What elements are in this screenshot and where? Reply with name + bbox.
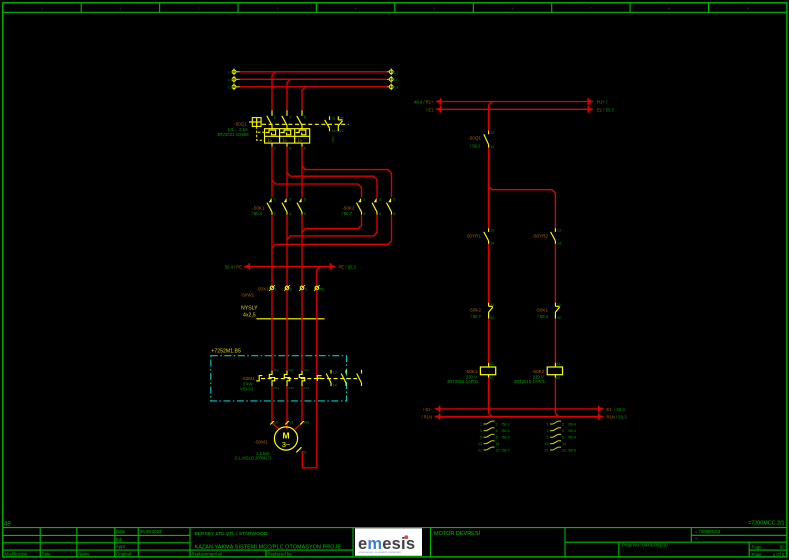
svg-text:6: 6 — [393, 212, 395, 216]
wire drop from L3 to breaker — [302, 87, 306, 111]
wire branch to contactor K2 — [272, 181, 362, 198]
overload relay trip hook left — [256, 376, 262, 381]
node R1N wire bottom — [440, 416, 599, 418]
svg-text:13: 13 — [490, 229, 494, 233]
svg-text:Date: Date — [42, 552, 52, 557]
svg-text:/50.4: /50.4 — [568, 429, 576, 433]
svg-text:3RT2015-1AP01: 3RT2015-1AP01 — [447, 379, 479, 384]
svg-text:-50K1: -50K1 — [252, 205, 265, 210]
wire terminal to overload relay — [271, 290, 273, 371]
cable line — [257, 318, 325, 320]
svg-text:V1: V1 — [289, 420, 293, 424]
relay contact -50YR1 — [484, 228, 494, 245]
svg-text:-50M1: -50M1 — [242, 376, 255, 381]
svg-text:/ E1-: / E1- — [423, 407, 432, 412]
motor pin V1 — [285, 420, 293, 424]
svg-text:/ E1: / E1 — [426, 107, 434, 112]
svg-text:5: 5 — [393, 197, 395, 201]
svg-text:3RV2021-1DX08: 3RV2021-1DX08 — [217, 132, 249, 137]
wire terminal to overload relay — [286, 290, 288, 371]
svg-text:4: 4 — [379, 212, 381, 216]
svg-text:26.08.2024: 26.08.2024 — [140, 529, 162, 534]
svg-text:Replacement of: Replacement of — [192, 552, 223, 557]
contactor K1 main contact 1-2 — [267, 197, 276, 216]
breaker -50Q1 drive dashed link — [257, 124, 349, 140]
drawing title MOTOR DEVRESI — [434, 530, 481, 537]
relay contact -50YR2 — [551, 228, 561, 245]
svg-text:1: 1 — [363, 197, 365, 201]
svg-text:5: 5 — [480, 436, 482, 440]
svg-text:2: 2 — [290, 287, 292, 291]
svg-text:-50K2: -50K2 — [469, 307, 482, 312]
svg-text:7: 7 — [590, 7, 592, 11]
svg-text:L3: L3 — [394, 84, 399, 89]
terminal -50X1:3 — [299, 285, 307, 291]
breaker thermal element 1 — [266, 130, 276, 135]
breaker -50Q1 pole 2 contact, pin 3 — [282, 110, 291, 128]
overload relay aux contact 3 — [357, 370, 362, 386]
svg-text:50.4 / PE: 50.4 / PE — [225, 265, 242, 270]
svg-text:L1: L1 — [394, 69, 399, 74]
svg-text:3: 3 — [547, 429, 549, 433]
breaker thermal element 3 — [296, 130, 306, 135]
wire interlock to coil K1 — [488, 319, 490, 363]
svg-text:M: M — [282, 430, 289, 440]
svg-text:13: 13 — [333, 370, 337, 374]
mounting location box +7252M1.B5 — [211, 349, 347, 401]
svg-text:1: 1 — [274, 115, 276, 119]
title block grid — [3, 528, 787, 557]
svg-text:5: 5 — [547, 436, 549, 440]
contactor coil -50K2 — [547, 362, 562, 380]
motor PE pin — [296, 447, 307, 454]
svg-text:-50YR2: -50YR2 — [532, 234, 548, 239]
svg-text:=7200MCC.2/1: =7200MCC.2/1 — [748, 521, 784, 527]
terminal strip X1 tag label — [256, 287, 269, 292]
project name KAZAN — [195, 543, 342, 550]
overload relay M1 tag label — [242, 376, 255, 381]
node L3 left termination — [228, 84, 239, 91]
motor value label 1,1 kW — [256, 451, 269, 456]
svg-text:-50K1: -50K1 — [465, 369, 478, 374]
svg-text:4/T2: 4/T2 — [288, 386, 294, 390]
svg-text:1/L1: 1/L1 — [273, 368, 279, 372]
contactor K2 main contact 5-6 — [387, 197, 396, 216]
contactor coil -50K1 — [480, 362, 495, 380]
circuit breaker Q1 tag label — [234, 122, 247, 127]
overload relay -50M1 thermal pole 5/L3 — [299, 368, 309, 390]
svg-text:22: 22 — [496, 448, 500, 452]
svg-text:5/L3: 5/L3 — [303, 368, 309, 372]
coil -50K1 value label 230 V — [466, 374, 477, 379]
K2 interlock tag label — [469, 307, 482, 319]
coil -50K2 value label 230 V — [533, 374, 544, 379]
svg-text:3: 3 — [276, 7, 278, 11]
svg-text:Appr: Appr — [116, 544, 126, 549]
contactor K2 tag label — [342, 205, 355, 216]
svg-text:-50W1: -50W1 — [241, 293, 255, 298]
wire YR1 to K2 interlock — [488, 244, 490, 303]
project number — [622, 542, 668, 547]
wire contactor K1 to terminal strip — [301, 215, 303, 287]
svg-text:L3: L3 — [228, 84, 233, 89]
motor M1 tag label — [254, 439, 267, 444]
breaker -50Q1 pole 3 bottom pin 6 — [302, 143, 306, 150]
R1+ left interruption arrow — [414, 98, 441, 105]
overload relay -50M1 thermal pole 1/L1 — [269, 368, 279, 390]
wire breaker to contactor K1 — [271, 147, 273, 198]
svg-text:PE: PE — [320, 287, 325, 291]
svg-text:3RT2015-1AP01: 3RT2015-1AP01 — [514, 379, 546, 384]
breaker -50Q1 trip unit box — [265, 129, 310, 143]
svg-text:/ 50.4: / 50.4 — [252, 211, 263, 216]
contactor K1 main contact 5-6 — [297, 197, 306, 216]
wire PE drop — [317, 267, 321, 287]
svg-text:22: 22 — [490, 316, 494, 320]
E1 left interruption arrow — [426, 106, 441, 113]
svg-text:14: 14 — [333, 384, 337, 388]
svg-text:/ R1N: / R1N — [421, 415, 432, 420]
svg-text:2: 2 — [363, 212, 365, 216]
wire PE terminal down — [316, 290, 318, 468]
svg-text:14: 14 — [557, 242, 561, 246]
svg-text:otomasyon ve elektrik sistemle: otomasyon ve elektrik sistemleri — [359, 550, 402, 554]
svg-text:1: 1 — [120, 7, 122, 11]
PE left interruption arrow — [225, 263, 249, 270]
YR2 tag label — [532, 234, 548, 239]
svg-text:13: 13 — [331, 117, 335, 121]
svg-text:21: 21 — [557, 303, 561, 307]
svg-text:2: 2 — [274, 212, 276, 216]
svg-text:BERSEY LTD.ŞTİ. / STARWOOD: BERSEY LTD.ŞTİ. / STARWOOD — [195, 530, 268, 537]
svg-text:-50Q1: -50Q1 — [468, 136, 481, 141]
contactor K2 main contact 3-4 — [372, 197, 381, 216]
svg-text:14: 14 — [496, 442, 500, 446]
wire YR2 to K1 interlock — [554, 244, 556, 303]
breaker magnetic element 1 — [268, 138, 272, 144]
svg-text:L2: L2 — [394, 77, 399, 82]
page number cells — [752, 544, 786, 557]
svg-text:21: 21 — [545, 448, 549, 452]
svg-text:3: 3 — [289, 197, 291, 201]
svg-text:5: 5 — [304, 197, 306, 201]
wire contactor K1 to terminal strip — [271, 215, 273, 287]
svg-text:5: 5 — [433, 7, 435, 11]
svg-text:Ed.: Ed. — [116, 537, 122, 542]
svg-text:/ 50.7: / 50.7 — [342, 211, 353, 216]
breaker -50Q1 aux NC contact 21-22 — [338, 116, 344, 133]
coil -50K1 type label — [447, 379, 479, 384]
wire terminal to overload relay — [301, 290, 303, 371]
svg-text:6: 6 — [512, 7, 514, 11]
breaker aux cross-reference 50.2 — [331, 137, 335, 144]
svg-text:A2: A2 — [489, 376, 493, 380]
svg-text:2: 2 — [562, 422, 564, 426]
E1- right interruption arrow — [599, 406, 626, 413]
svg-text:-50K2: -50K2 — [532, 369, 545, 374]
svg-text:MOTOR DEVRESİ: MOTOR DEVRESİ — [434, 530, 481, 537]
svg-text:Proje No.: 04.01-001/10: Proje No.: 04.01-001/10 — [622, 542, 668, 547]
svg-text:9: 9 — [747, 7, 749, 11]
svg-text:-50K2: -50K2 — [342, 205, 355, 210]
node L2 left termination — [228, 76, 239, 83]
cable type label NYSLY 4x2,5 — [241, 305, 258, 318]
drawing reference =7200MCC.2/1 — [748, 521, 784, 527]
svg-text:4: 4 — [562, 429, 564, 433]
wire breaker to contactor K1 — [301, 147, 303, 198]
svg-text:2: 2 — [198, 7, 200, 11]
emesis logo — [355, 528, 422, 556]
svg-text:1 Of 6: 1 Of 6 — [773, 552, 785, 557]
svg-text:6: 6 — [562, 436, 564, 440]
motor value label type — [235, 456, 272, 461]
svg-text:-50X1: -50X1 — [256, 287, 269, 292]
svg-text:V/D-63: V/D-63 — [240, 387, 254, 392]
svg-text:E1 / 50.3: E1 / 50.3 — [597, 107, 614, 112]
svg-text:L2: L2 — [228, 77, 233, 82]
svg-text:48.4 / R1+: 48.4 / R1+ — [414, 100, 434, 105]
svg-text:14: 14 — [562, 442, 566, 446]
value label 3RV2021-1DX08 — [217, 132, 249, 137]
wire branch to contactor K2 — [302, 166, 392, 197]
svg-text:KAZAN YAKMA SİSTEMİ MCC/PLC OT: KAZAN YAKMA SİSTEMİ MCC/PLC OTOMASYON PR… — [195, 543, 342, 550]
terminal -50X1:PE — [314, 285, 325, 291]
svg-text:6: 6 — [304, 146, 306, 150]
svg-text:6: 6 — [496, 436, 498, 440]
sheet number 49 — [4, 521, 11, 527]
svg-text:G.L.MSLB 200ML/1: G.L.MSLB 200ML/1 — [235, 456, 272, 461]
svg-text:4: 4 — [289, 212, 291, 216]
terminal -50X1:1 — [269, 285, 277, 291]
value label V/D-63 — [240, 387, 254, 392]
svg-text:14: 14 — [490, 242, 494, 246]
wire overload to motor — [286, 386, 288, 429]
E1 right interruption arrow — [588, 106, 614, 113]
coil -50K1 tag label — [465, 369, 478, 374]
svg-text:Name: Name — [78, 552, 90, 557]
svg-text:2: 2 — [496, 422, 498, 426]
svg-text:2/T1: 2/T1 — [273, 386, 279, 390]
value label 1,6...2,5A — [228, 127, 248, 132]
switch -50Q1 aux contact 13-14 — [484, 131, 494, 150]
contactor K2 main contact 1-2 — [357, 197, 366, 216]
wire R1+ down to Q1 aux — [489, 102, 493, 131]
wire drop from L1 to breaker — [272, 72, 276, 111]
breaker -50Q1 pole 3 contact, pin 5 — [297, 110, 306, 128]
R1N right interruption arrow — [599, 413, 628, 420]
svg-text:4: 4 — [355, 7, 357, 11]
terminal -50X1:2 — [284, 285, 292, 291]
svg-text:/50.7: /50.7 — [502, 448, 510, 452]
svg-text:/50.2: /50.2 — [331, 137, 335, 144]
svg-text:22: 22 — [340, 129, 344, 133]
svg-text:/50.3: /50.3 — [502, 429, 510, 433]
wire contactor K2 crossover join — [287, 215, 377, 240]
wire branch to right leg — [489, 186, 556, 228]
wire contactor K2 crossover join — [302, 215, 362, 233]
svg-text:1: 1 — [547, 422, 549, 426]
plant reference cell — [695, 529, 721, 534]
L1 bus wire — [239, 71, 388, 73]
svg-text:U1: U1 — [274, 420, 279, 424]
L2 bus wire — [239, 78, 388, 80]
svg-text:14: 14 — [331, 129, 335, 133]
contactor K1 tag label — [252, 205, 265, 216]
svg-text:L1: L1 — [228, 69, 233, 74]
overload relay -50M1 thermal pole 3/L2 — [284, 368, 294, 390]
svg-text:22: 22 — [557, 316, 561, 320]
svg-text:8: 8 — [668, 7, 670, 11]
svg-text:13: 13 — [557, 229, 561, 233]
svg-text:21: 21 — [490, 303, 494, 307]
svg-text:4: 4 — [289, 146, 291, 150]
svg-text:Page: Page — [752, 544, 763, 549]
svg-text:E1- / 50.3: E1- / 50.3 — [607, 407, 626, 412]
svg-text:-50K1: -50K1 — [536, 307, 549, 312]
svg-text:W1: W1 — [304, 420, 309, 424]
svg-text:Page: Page — [752, 552, 763, 557]
svg-text:Date: Date — [116, 529, 126, 534]
wire coil K2 to R1N — [555, 378, 559, 417]
breaker thermal element 2 — [281, 130, 291, 135]
Q1 aux tag label — [468, 136, 481, 149]
breaker -50Q1 pole 1 contact, pin 1 — [267, 110, 276, 128]
svg-text:21: 21 — [478, 448, 482, 452]
svg-text:3: 3 — [480, 429, 482, 433]
wire PE to motor — [302, 452, 317, 468]
svg-text:/50.6: /50.6 — [568, 448, 576, 452]
svg-text:14: 14 — [490, 145, 494, 149]
E1- left interruption arrow — [423, 406, 440, 413]
svg-text:21: 21 — [340, 117, 344, 121]
svg-text:= 7200MCC3: = 7200MCC3 — [695, 529, 721, 534]
overload relay trip hook right — [317, 376, 321, 381]
title block labels — [5, 529, 293, 556]
svg-text:50: 50 — [780, 544, 785, 549]
cable W1 tag label — [241, 293, 255, 298]
svg-text:NYSLY: NYSLY — [241, 305, 258, 311]
svg-text:A1: A1 — [490, 362, 494, 366]
breaker magnetic element 3 — [298, 138, 302, 144]
svg-text:/ 50.2: / 50.2 — [470, 143, 481, 148]
node L2 right termination — [387, 76, 399, 83]
breaker -50Q1 pole 1 bottom pin 2 — [272, 143, 276, 150]
company name BERSEY — [195, 530, 268, 537]
svg-text:2: 2 — [274, 146, 276, 150]
svg-text:1: 1 — [480, 422, 482, 426]
svg-text:/50.3: /50.3 — [502, 422, 510, 426]
motor pin W1 — [300, 420, 309, 424]
overload relay aux contact 2 — [341, 370, 346, 386]
node PE wire — [249, 266, 331, 268]
coil -50K2 tag label — [532, 369, 545, 374]
breaker magnetic element 2 — [283, 138, 287, 144]
svg-text:/ 50.4: / 50.4 — [538, 314, 549, 319]
coil K2 contact cross-reference table — [545, 421, 577, 452]
svg-text:4: 4 — [496, 429, 498, 433]
svg-text:-50Q1: -50Q1 — [234, 122, 247, 127]
motor -50M1 symbol — [274, 427, 297, 450]
L3 bus wire — [239, 86, 388, 88]
overload relay aux contact 1 — [326, 370, 336, 388]
coil -50K2 type label — [514, 379, 546, 384]
node L3 right termination — [387, 84, 399, 91]
overload relay dashed drive line — [261, 378, 357, 380]
svg-text:/50.4: /50.4 — [568, 422, 576, 426]
svg-text:/ 50.7: / 50.7 — [471, 314, 482, 319]
svg-text:5: 5 — [304, 115, 306, 119]
wire coil K1 to R1N — [489, 378, 493, 417]
breaker -50Q1 aux NO contact 13-14 — [325, 116, 335, 133]
svg-text:13: 13 — [490, 131, 494, 135]
wire overload to motor — [272, 386, 279, 429]
breaker -50Q1 pole 2 bottom pin 4 — [287, 143, 291, 150]
svg-text:0: 0 — [41, 7, 43, 11]
wire interlock to coil K2 — [554, 319, 556, 363]
svg-text:A2: A2 — [556, 376, 560, 380]
PE right interruption arrow — [330, 263, 356, 270]
svg-text:R1+ /: R1+ / — [597, 100, 608, 105]
wire drop from L2 to breaker — [287, 79, 291, 110]
svg-text:/50.4: /50.4 — [568, 436, 576, 440]
R1N left interruption arrow — [421, 413, 439, 420]
wire contactor K1 to terminal strip — [286, 215, 288, 287]
wire branch to contactor K2 — [287, 173, 377, 198]
value label 3 kW — [243, 382, 253, 387]
svg-text:3: 3 — [379, 197, 381, 201]
wire Q1 aux to branch node — [488, 148, 490, 229]
svg-text:6/T3: 6/T3 — [303, 386, 309, 390]
interlock NC contact -50K2 21-22 — [488, 303, 494, 320]
svg-text:-50M1: -50M1 — [254, 439, 267, 444]
contactor K1 main contact 3-4 — [282, 197, 291, 216]
svg-text:R1N / 50.3: R1N / 50.3 — [607, 415, 628, 420]
location reference cell — [695, 536, 698, 541]
svg-text:22: 22 — [562, 448, 566, 452]
wire overload to motor — [295, 386, 302, 429]
svg-text:3: 3 — [305, 287, 307, 291]
svg-text:13: 13 — [478, 442, 482, 446]
svg-text:3: 3 — [289, 115, 291, 119]
svg-text:4x2,5: 4x2,5 — [243, 313, 256, 319]
node L1 right termination — [387, 69, 399, 76]
svg-text:+7252M1.B5: +7252M1.B5 — [211, 349, 241, 355]
coil K1 contact cross-reference table — [478, 421, 510, 452]
interlock NC contact -50K1 21-22 — [555, 303, 561, 320]
svg-text:3~: 3~ — [282, 440, 291, 449]
svg-text:Original: Original — [116, 552, 131, 557]
K1 interlock tag label — [536, 307, 549, 319]
svg-text:6: 6 — [304, 212, 306, 216]
svg-text:1: 1 — [275, 287, 277, 291]
svg-text:/50.3: /50.3 — [502, 436, 510, 440]
node E1 wire top — [441, 108, 588, 110]
motor pin U1 — [270, 420, 278, 424]
svg-text:13: 13 — [545, 442, 549, 446]
svg-text:Modification: Modification — [5, 552, 29, 557]
R1+ right interruption arrow — [588, 98, 608, 105]
svg-text:-50YR1: -50YR1 — [465, 234, 481, 239]
node R1+ wire top — [441, 101, 588, 103]
svg-text:A1: A1 — [556, 362, 560, 366]
node E1- wire bottom — [440, 408, 599, 410]
breaker -50Q1 manual operator — [249, 118, 261, 127]
svg-text:Replaced by: Replaced by — [268, 552, 293, 557]
wire breaker to contactor K1 — [286, 147, 288, 198]
wire contactor K2 crossover join — [272, 215, 392, 248]
node L1 left termination — [228, 69, 239, 76]
YR1 tag label — [465, 234, 481, 239]
